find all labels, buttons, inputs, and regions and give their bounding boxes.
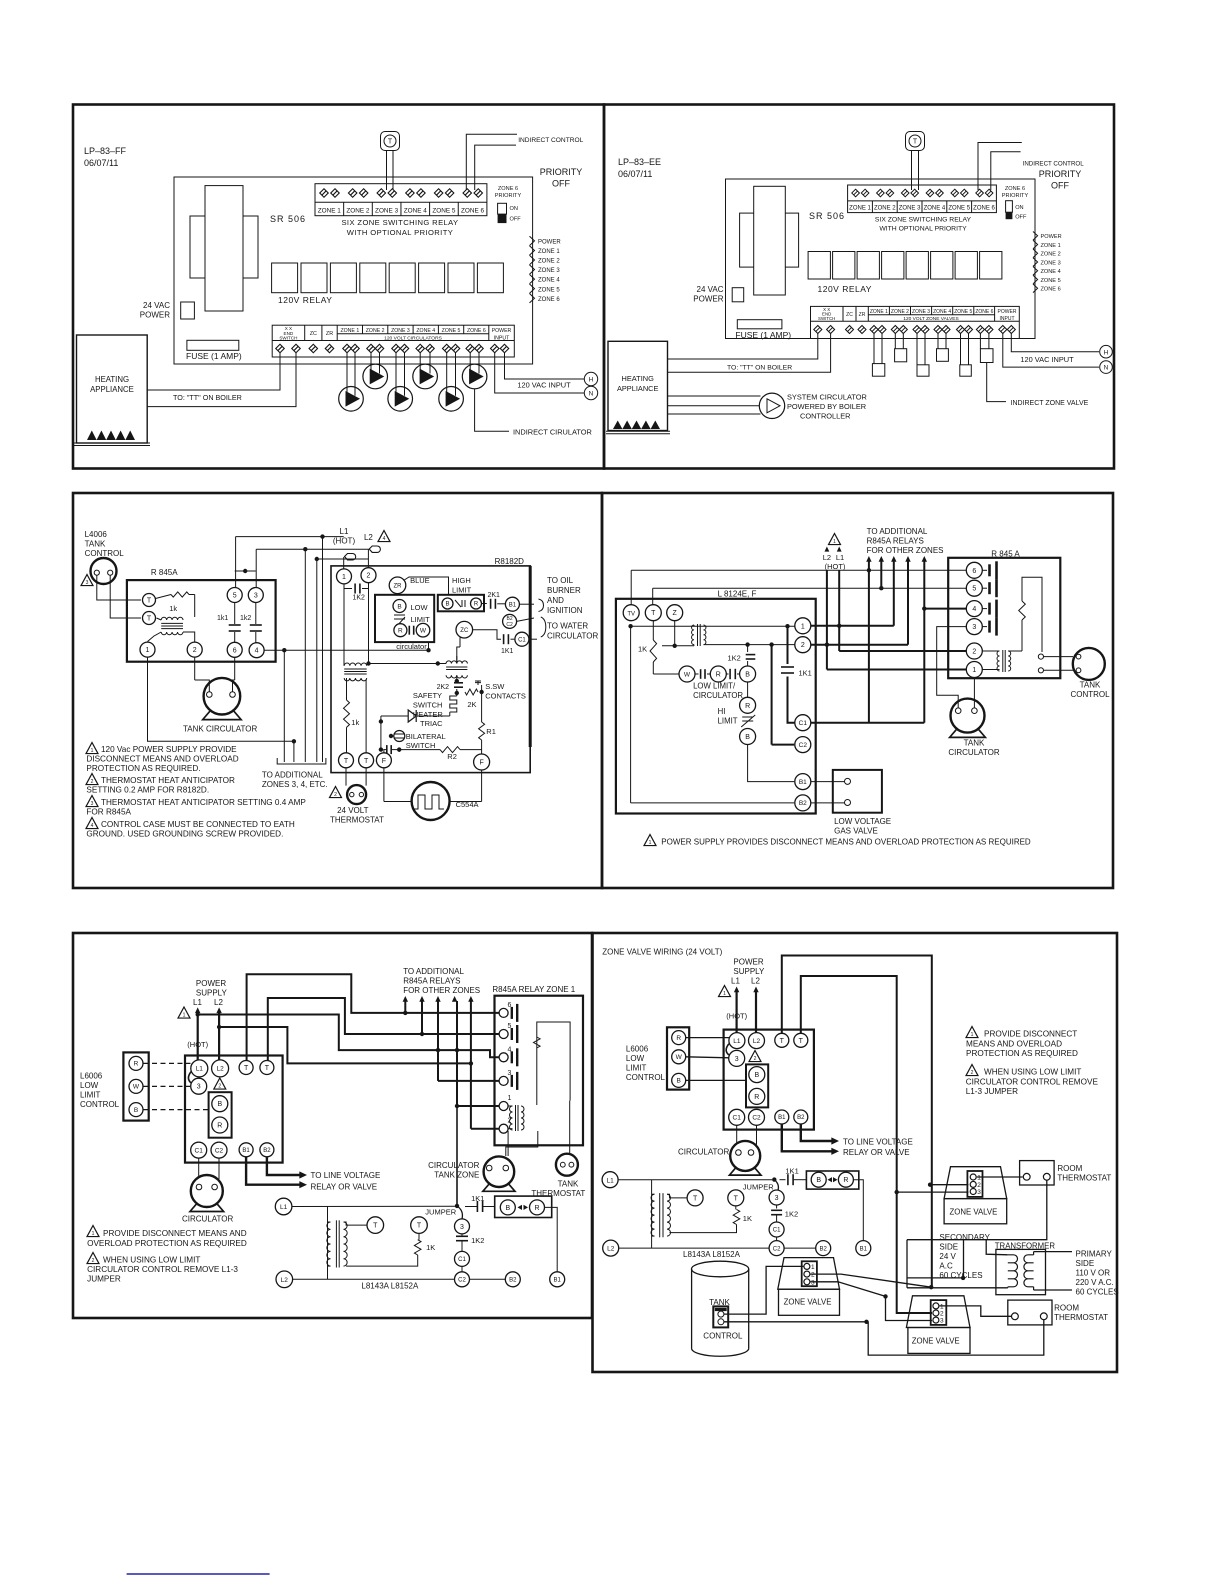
svg-text:ZONE 4: ZONE 4 bbox=[933, 309, 951, 315]
svg-text:ZONE 5: ZONE 5 bbox=[432, 207, 456, 214]
svg-text:B1: B1 bbox=[860, 1246, 868, 1252]
transformer bbox=[190, 216, 258, 278]
wires T to zone3 bbox=[386, 151, 388, 191]
svg-text:ZONE VALVE: ZONE VALVE bbox=[950, 1208, 998, 1217]
svg-text:POWERED BY BOILER: POWERED BY BOILER bbox=[787, 402, 866, 411]
svg-text:CONTROL: CONTROL bbox=[703, 1332, 743, 1341]
internal wiring left bbox=[343, 584, 345, 666]
svg-text:ZONE 4: ZONE 4 bbox=[416, 328, 435, 334]
relay squares bbox=[808, 252, 830, 280]
svg-text:HIGH: HIGH bbox=[452, 576, 471, 585]
svg-text:BURNER: BURNER bbox=[547, 586, 581, 595]
R845A box bbox=[948, 558, 1060, 678]
svg-text:1: 1 bbox=[977, 1175, 981, 1182]
svg-text:2: 2 bbox=[801, 642, 805, 649]
svg-text:POWER: POWER bbox=[196, 979, 226, 988]
svg-text:L1: L1 bbox=[606, 1177, 614, 1184]
svg-text:OVERLOAD PROTECTION AS REQUIRE: OVERLOAD PROTECTION AS REQUIRED bbox=[87, 1239, 247, 1248]
svg-text:ZONE 1: ZONE 1 bbox=[849, 206, 871, 212]
zone valve 2 bbox=[944, 1167, 1007, 1199]
svg-text:5: 5 bbox=[233, 593, 237, 600]
svg-text:ZONE 6: ZONE 6 bbox=[973, 206, 995, 212]
svg-text:WHEN USING LOW LIMIT: WHEN USING LOW LIMIT bbox=[103, 1256, 200, 1265]
svg-text:24 VAC: 24 VAC bbox=[697, 285, 724, 294]
tank control bbox=[1044, 656, 1074, 658]
circle1 row / terminal rows bbox=[811, 625, 894, 627]
svg-text:1: 1 bbox=[508, 1095, 512, 1102]
panel 4 : L8124E,F + R845A bbox=[602, 493, 1113, 888]
svg-text:1: 1 bbox=[342, 574, 346, 581]
rt2 return bbox=[868, 1320, 1044, 1355]
W R B row bbox=[679, 666, 695, 682]
thermostat T bbox=[906, 132, 925, 151]
svg-text:B1: B1 bbox=[242, 1148, 250, 1154]
1K2 cap bbox=[745, 642, 749, 646]
svg-text:N: N bbox=[589, 391, 594, 398]
svg-text:1: 1 bbox=[183, 1012, 186, 1018]
notes bbox=[86, 743, 98, 754]
svg-text:TRIAC: TRIAC bbox=[420, 719, 443, 728]
L8143A circuit bbox=[275, 1198, 292, 1215]
transformer bbox=[651, 1180, 653, 1248]
svg-text:TANK: TANK bbox=[964, 739, 985, 748]
svg-text:(HOT): (HOT) bbox=[187, 1040, 208, 1049]
svg-text:TANK CIRCULATOR: TANK CIRCULATOR bbox=[183, 725, 257, 734]
bundle to additional zones bbox=[283, 650, 285, 762]
room thermostat 2 bbox=[1008, 1300, 1052, 1325]
svg-text:POWER: POWER bbox=[998, 309, 1017, 315]
svg-text:ZONE 6: ZONE 6 bbox=[1005, 186, 1025, 192]
svg-text:circulator: circulator bbox=[396, 642, 427, 651]
svg-text:LIMIT: LIMIT bbox=[80, 1091, 101, 1100]
svg-text:OFF: OFF bbox=[1015, 215, 1027, 221]
24 volt thermostat bbox=[345, 768, 347, 786]
svg-text:ZONE 6: ZONE 6 bbox=[975, 309, 993, 315]
svg-text:ZONE 5: ZONE 5 bbox=[442, 328, 461, 334]
svg-text:WITH OPTIONAL PRIORITY: WITH OPTIONAL PRIORITY bbox=[347, 228, 453, 237]
svg-text:B: B bbox=[745, 672, 750, 679]
svg-text:24 VAC: 24 VAC bbox=[143, 301, 170, 310]
svg-text:ZONE 3: ZONE 3 bbox=[391, 328, 410, 334]
svg-text:R 845 A: R 845 A bbox=[991, 549, 1020, 558]
svg-text:60 CYCLES: 60 CYCLES bbox=[939, 1271, 982, 1280]
svg-text:ZONE VALVE: ZONE VALVE bbox=[912, 1337, 960, 1346]
svg-text:3: 3 bbox=[972, 624, 976, 631]
svg-text:ZONE 2: ZONE 2 bbox=[346, 207, 370, 214]
ZC bbox=[456, 621, 473, 638]
svg-text:B: B bbox=[816, 1177, 821, 1184]
lines3/4/5 to terminals bbox=[438, 1080, 499, 1082]
svg-text:(HOT): (HOT) bbox=[825, 562, 846, 571]
svg-text:L1: L1 bbox=[340, 527, 349, 536]
circulator bbox=[736, 1125, 738, 1145]
svg-text:2: 2 bbox=[367, 573, 371, 580]
thermostat T bbox=[381, 132, 400, 151]
svg-text:ZONE 5: ZONE 5 bbox=[954, 309, 972, 315]
svg-text:1k1: 1k1 bbox=[217, 615, 228, 622]
svg-text:ON: ON bbox=[510, 206, 518, 212]
svg-text:LP–83–FF: LP–83–FF bbox=[84, 146, 127, 156]
svg-text:06/07/11: 06/07/11 bbox=[84, 158, 118, 168]
svg-text:INDIRECT ZONE VALVE: INDIRECT ZONE VALVE bbox=[1011, 400, 1089, 407]
svg-text:L2: L2 bbox=[364, 533, 373, 542]
wire from 1 down to 120v bus bbox=[148, 657, 294, 741]
svg-text:WHEN USING LOW LIMIT: WHEN USING LOW LIMIT bbox=[984, 1068, 1081, 1077]
svg-text:PROVIDE DISCONNECT: PROVIDE DISCONNECT bbox=[984, 1030, 1077, 1039]
svg-text:ZC: ZC bbox=[460, 628, 469, 634]
svg-text:1: 1 bbox=[146, 647, 150, 654]
svg-text:1K2: 1K2 bbox=[785, 1210, 798, 1219]
svg-text:L1: L1 bbox=[733, 1038, 741, 1045]
svg-text:R1: R1 bbox=[486, 727, 496, 736]
indirect control wires bbox=[978, 143, 1022, 191]
svg-text:B2: B2 bbox=[509, 1277, 517, 1283]
svg-text:SWITCH: SWITCH bbox=[406, 741, 436, 750]
svg-text:TANK: TANK bbox=[1080, 681, 1101, 690]
svg-text:3: 3 bbox=[197, 1084, 201, 1091]
svg-text:B: B bbox=[505, 1205, 510, 1212]
svg-text:ON: ON bbox=[1015, 205, 1023, 211]
wire 4 to right bbox=[264, 649, 284, 651]
fuse bbox=[737, 320, 782, 329]
internal switch bbox=[1022, 577, 1042, 652]
svg-text:T: T bbox=[693, 1196, 698, 1203]
svg-text:1: 1 bbox=[811, 1264, 815, 1271]
svg-text:SETTING 0.2 AMP FOR R8182D.: SETTING 0.2 AMP FOR R8182D. bbox=[86, 786, 209, 795]
svg-text:1K1: 1K1 bbox=[471, 1194, 484, 1203]
svg-text:SWITCH: SWITCH bbox=[818, 316, 835, 321]
svg-text:H: H bbox=[1104, 349, 1109, 356]
L1 L2 drops bbox=[197, 1012, 199, 1060]
svg-text:6: 6 bbox=[233, 647, 237, 654]
svg-text:2: 2 bbox=[977, 1182, 981, 1189]
svg-text:INDIRECT CONTROL: INDIRECT CONTROL bbox=[518, 137, 583, 144]
svg-text:ZONE 2: ZONE 2 bbox=[891, 309, 909, 315]
svg-text:CONTROL CASE MUST BE CONNECTED: CONTROL CASE MUST BE CONNECTED TO EATH bbox=[101, 820, 295, 829]
main box bbox=[724, 1030, 814, 1130]
svg-text:1: 1 bbox=[649, 840, 652, 846]
svg-text:BILATERAL: BILATERAL bbox=[406, 732, 446, 741]
1K1 cap vertical bbox=[787, 626, 789, 664]
chevrons bbox=[1033, 232, 1038, 241]
1k resistor bbox=[156, 595, 172, 599]
L6006 box bbox=[123, 1052, 148, 1120]
svg-text:L1: L1 bbox=[280, 1204, 288, 1211]
svg-text:C2: C2 bbox=[799, 742, 808, 749]
svg-text:ZONE 1: ZONE 1 bbox=[318, 207, 342, 214]
valve1 outputs diagonals bbox=[811, 1274, 932, 1287]
svg-text:CIRCULATOR: CIRCULATOR bbox=[182, 1215, 233, 1224]
svg-text:CONTROL: CONTROL bbox=[1070, 690, 1110, 699]
svg-text:F: F bbox=[382, 758, 386, 765]
R845A box bbox=[127, 580, 276, 662]
svg-text:ZONE 3: ZONE 3 bbox=[375, 207, 399, 214]
svg-text:120 VAC INPUT: 120 VAC INPUT bbox=[517, 380, 571, 389]
L6006 bbox=[667, 1027, 689, 1089]
svg-text:LOW: LOW bbox=[626, 1054, 645, 1063]
secondary bottom bus bbox=[1007, 1287, 1009, 1288]
T T wires up and over bbox=[247, 974, 499, 1060]
primary wires bbox=[1033, 1252, 1035, 1255]
svg-text:PRIMARY: PRIMARY bbox=[1076, 1250, 1113, 1259]
svg-text:1K1: 1K1 bbox=[501, 648, 514, 655]
svg-text:LOW: LOW bbox=[411, 603, 429, 612]
svg-text:L2: L2 bbox=[751, 977, 760, 986]
svg-text:ZONE 6: ZONE 6 bbox=[467, 328, 486, 334]
svg-text:SECONDARY: SECONDARY bbox=[939, 1233, 990, 1242]
svg-text:ZONE 3: ZONE 3 bbox=[1041, 260, 1061, 266]
svg-text:Z: Z bbox=[673, 610, 678, 617]
svg-text:2: 2 bbox=[971, 1070, 974, 1076]
svg-text:ZONE 2: ZONE 2 bbox=[538, 259, 560, 265]
svg-text:THERMOSTAT: THERMOSTAT bbox=[1054, 1313, 1108, 1322]
upper zone terminal strip bbox=[315, 184, 487, 216]
svg-text:1K: 1K bbox=[638, 645, 647, 654]
svg-text:2: 2 bbox=[972, 649, 976, 656]
svg-text:CIRCULATOR: CIRCULATOR bbox=[547, 632, 598, 641]
svg-text:3: 3 bbox=[775, 1195, 779, 1202]
svg-text:L4006: L4006 bbox=[85, 530, 108, 539]
svg-text:60 CYCLES: 60 CYCLES bbox=[1076, 1288, 1119, 1297]
hot bus routing bbox=[198, 1015, 499, 1058]
svg-text:INDIRECT CONTROL: INDIRECT CONTROL bbox=[1023, 161, 1085, 168]
svg-text:3: 3 bbox=[735, 1056, 739, 1063]
svg-text:SUPPLY: SUPPLY bbox=[733, 967, 765, 976]
svg-text:2: 2 bbox=[193, 647, 197, 654]
120 vac input HN bbox=[1011, 334, 1099, 352]
valve2 t1 to room thermostat 1 bbox=[977, 1176, 1023, 1178]
svg-text:2: 2 bbox=[92, 1258, 95, 1264]
LOW LIMIT box bbox=[375, 595, 434, 642]
B2 C2 bbox=[503, 614, 517, 628]
T T and 1K bbox=[344, 1222, 368, 1225]
svg-text:1: 1 bbox=[971, 1032, 974, 1038]
svg-text:3: 3 bbox=[940, 1318, 944, 1325]
svg-text:2: 2 bbox=[754, 1056, 757, 1062]
svg-text:ZONES 3, 4, ETC.: ZONES 3, 4, ETC. bbox=[262, 780, 328, 789]
svg-text:120 Vac POWER SUPPLY PROVIDE: 120 Vac POWER SUPPLY PROVIDE bbox=[101, 745, 237, 754]
svg-text:ZONE 3: ZONE 3 bbox=[899, 206, 921, 212]
five arrows bbox=[866, 556, 871, 562]
svg-text:L 8124E, F: L 8124E, F bbox=[718, 590, 757, 599]
svg-text:R8182D: R8182D bbox=[495, 557, 525, 566]
svg-text:24 VOLT: 24 VOLT bbox=[337, 806, 369, 815]
svg-text:1K1: 1K1 bbox=[785, 1167, 798, 1176]
svg-text:2: 2 bbox=[940, 1311, 944, 1318]
svg-text:ZONE 3: ZONE 3 bbox=[912, 309, 930, 315]
valve3 t1 to rt2 bbox=[940, 1306, 1012, 1316]
svg-text:F: F bbox=[479, 760, 483, 767]
svg-text:FOR OTHER ZONES: FOR OTHER ZONES bbox=[867, 546, 944, 555]
svg-text:2K2: 2K2 bbox=[437, 684, 450, 691]
heating appliance bbox=[608, 341, 668, 430]
svg-text:LIMIT: LIMIT bbox=[718, 717, 738, 726]
room thermostat 1 bbox=[1020, 1161, 1055, 1185]
svg-text:B2: B2 bbox=[263, 1148, 271, 1154]
svg-text:06/07/11: 06/07/11 bbox=[618, 169, 652, 179]
svg-text:PRIORITY: PRIORITY bbox=[1039, 169, 1082, 179]
svg-text:POWER: POWER bbox=[538, 240, 561, 246]
svg-text:B2: B2 bbox=[820, 1246, 828, 1252]
gas valve bbox=[833, 770, 882, 813]
svg-text:T: T bbox=[417, 1223, 422, 1230]
120 VAC input + H N bbox=[505, 352, 585, 379]
svg-text:ZONE 4: ZONE 4 bbox=[924, 206, 946, 212]
svg-text:SAFETY: SAFETY bbox=[413, 691, 442, 700]
svg-text:RELAY OR VALVE: RELAY OR VALVE bbox=[311, 1183, 378, 1192]
1K2 cap bbox=[344, 584, 352, 589]
dashed connectors bbox=[144, 1062, 191, 1064]
svg-text:4: 4 bbox=[972, 606, 976, 613]
svg-text:MEANS AND OVERLOAD: MEANS AND OVERLOAD bbox=[966, 1039, 1062, 1048]
svg-text:HEATER: HEATER bbox=[413, 710, 443, 719]
svg-text:120 VOLT ZONE VALVES: 120 VOLT ZONE VALVES bbox=[903, 316, 958, 322]
L8143A circuit bbox=[602, 1172, 618, 1188]
svg-text:THERMOSTAT HEAT ANTICIPATOR SE: THERMOSTAT HEAT ANTICIPATOR SETTING 0.4 … bbox=[101, 798, 306, 807]
svg-text:ZONE VALVE: ZONE VALVE bbox=[784, 1298, 832, 1307]
svg-text:POWER SUPPLY PROVIDES DISCONNE: POWER SUPPLY PROVIDES DISCONNECT MEANS A… bbox=[661, 838, 1031, 847]
svg-text:ZONE 1: ZONE 1 bbox=[538, 249, 560, 255]
svg-text:220 V A.C.: 220 V A.C. bbox=[1076, 1278, 1114, 1287]
plug/disconnect symbols bbox=[345, 554, 356, 560]
svg-text:C1: C1 bbox=[458, 1257, 466, 1263]
svg-text:INPUT: INPUT bbox=[494, 335, 510, 341]
svg-text:PRIORITY: PRIORITY bbox=[1002, 193, 1029, 199]
svg-text:1: 1 bbox=[833, 539, 836, 545]
tank cylinder bbox=[692, 1261, 749, 1277]
svg-text:L2: L2 bbox=[823, 553, 831, 562]
svg-text:B: B bbox=[217, 1101, 222, 1108]
brackets and right labels bbox=[539, 599, 544, 612]
main control box bbox=[185, 1056, 283, 1163]
svg-text:L1-3 JUMPER: L1-3 JUMPER bbox=[966, 1087, 1018, 1096]
svg-text:T: T bbox=[147, 616, 152, 623]
fuse F1 bbox=[187, 340, 239, 350]
svg-text:B: B bbox=[445, 602, 449, 608]
B1 B2 to arrows bbox=[267, 1157, 301, 1175]
svg-text:B: B bbox=[397, 603, 401, 610]
svg-text:R845A RELAYS: R845A RELAYS bbox=[867, 537, 924, 546]
svg-text:2: 2 bbox=[811, 1272, 815, 1279]
svg-text:T: T bbox=[734, 1196, 739, 1203]
notes bbox=[87, 1226, 99, 1237]
right connector chevrons bbox=[530, 236, 535, 245]
svg-text:T: T bbox=[913, 139, 918, 146]
svg-text:ZONE VALVE WIRING (24 VOLT): ZONE VALVE WIRING (24 VOLT) bbox=[602, 948, 722, 957]
svg-text:ZONE 1: ZONE 1 bbox=[870, 309, 888, 315]
svg-text:LIMIT: LIMIT bbox=[411, 615, 431, 624]
svg-text:ZR: ZR bbox=[326, 331, 333, 337]
svg-text:5: 5 bbox=[972, 586, 976, 593]
SR506 box bbox=[726, 179, 1036, 339]
R / HI LIMIT / B chain bbox=[747, 682, 749, 697]
wires appliance to end switch bbox=[147, 353, 280, 390]
svg-text:TV: TV bbox=[627, 611, 635, 617]
coil bbox=[510, 1106, 513, 1130]
svg-text:TO ADDITIONAL: TO ADDITIONAL bbox=[867, 527, 928, 536]
svg-text:ZONE 2: ZONE 2 bbox=[366, 328, 385, 334]
svg-text:T: T bbox=[364, 758, 369, 765]
svg-text:R: R bbox=[217, 1123, 222, 1130]
svg-text:T: T bbox=[373, 1223, 378, 1230]
svg-text:TANK: TANK bbox=[558, 1180, 579, 1189]
svg-text:ROOM: ROOM bbox=[1057, 1164, 1082, 1173]
buses to R845A bbox=[631, 569, 966, 571]
svg-text:TO ADDITIONAL: TO ADDITIONAL bbox=[262, 771, 323, 780]
svg-text:2K: 2K bbox=[467, 700, 476, 709]
zone valve squares bbox=[873, 333, 875, 364]
svg-text:PROTECTION AS REQUIRED: PROTECTION AS REQUIRED bbox=[966, 1049, 1078, 1058]
svg-text:3: 3 bbox=[977, 1189, 981, 1196]
L1-3 jumper arc bbox=[188, 1072, 191, 1084]
lower terminal strip (zone valves) bbox=[811, 306, 1020, 338]
svg-text:SR 506: SR 506 bbox=[809, 211, 845, 221]
svg-text:L6006: L6006 bbox=[80, 1072, 103, 1081]
lower terminal strip bbox=[272, 325, 514, 357]
T wires over bbox=[782, 956, 932, 1288]
notes bbox=[966, 1027, 978, 1038]
svg-text:IGNITION: IGNITION bbox=[547, 606, 583, 615]
svg-text:1k2: 1k2 bbox=[240, 615, 251, 622]
svg-text:1: 1 bbox=[972, 667, 976, 674]
svg-text:ZONE 4: ZONE 4 bbox=[404, 207, 428, 214]
heater coil bbox=[450, 693, 457, 712]
svg-text:ZONE 2: ZONE 2 bbox=[874, 206, 896, 212]
svg-text:ZONE 6: ZONE 6 bbox=[1041, 287, 1061, 293]
svg-text:OFF: OFF bbox=[510, 217, 522, 223]
page background bbox=[73, 105, 604, 469]
svg-text:1: 1 bbox=[92, 1231, 95, 1237]
svg-text:SUPPLY: SUPPLY bbox=[196, 989, 228, 998]
svg-text:T: T bbox=[780, 1038, 785, 1045]
svg-text:1K2: 1K2 bbox=[353, 595, 366, 602]
svg-text:B2: B2 bbox=[797, 1115, 805, 1121]
svg-text:T: T bbox=[147, 598, 152, 605]
svg-text:HI: HI bbox=[718, 707, 726, 716]
svg-text:OFF: OFF bbox=[1051, 181, 1069, 191]
svg-text:L1: L1 bbox=[731, 977, 740, 986]
upper zone strip bbox=[848, 185, 997, 213]
svg-text:L8143A L8152A: L8143A L8152A bbox=[683, 1250, 741, 1259]
svg-text:FOR R845A: FOR R845A bbox=[86, 808, 131, 817]
transformer left bbox=[344, 663, 367, 666]
1K resistor from T bbox=[652, 621, 654, 640]
heating appliance bbox=[77, 335, 148, 443]
svg-text:THERMOSTAT HEAT ANTICIPATOR: THERMOSTAT HEAT ANTICIPATOR bbox=[101, 776, 235, 785]
svg-text:B1: B1 bbox=[799, 779, 807, 786]
svg-text:B2: B2 bbox=[799, 800, 807, 807]
svg-text:R 845A: R 845A bbox=[151, 568, 178, 577]
svg-text:R: R bbox=[745, 703, 750, 710]
svg-text:CIRCULATOR: CIRCULATOR bbox=[693, 691, 743, 700]
svg-text:HEATING: HEATING bbox=[622, 374, 655, 383]
svg-text:1: 1 bbox=[801, 623, 805, 630]
svg-text:CONTACTS: CONTACTS bbox=[485, 692, 526, 701]
R8182D box bbox=[331, 566, 530, 773]
transformer bbox=[327, 1207, 329, 1280]
svg-text:SWITCH: SWITCH bbox=[279, 336, 297, 341]
svg-text:A.C: A.C bbox=[939, 1262, 953, 1271]
svg-text:SR 506: SR 506 bbox=[270, 214, 306, 224]
svg-text:ZONE 5: ZONE 5 bbox=[1041, 278, 1061, 284]
svg-text:1K2: 1K2 bbox=[471, 1236, 484, 1245]
svg-text:SWITCH: SWITCH bbox=[413, 701, 443, 710]
B1 B2 arrows bbox=[801, 1124, 833, 1141]
C554A bbox=[412, 782, 450, 820]
svg-text:CONTROL: CONTROL bbox=[80, 1100, 120, 1109]
transformer R845A bbox=[161, 617, 183, 620]
svg-text:C2: C2 bbox=[506, 622, 513, 628]
